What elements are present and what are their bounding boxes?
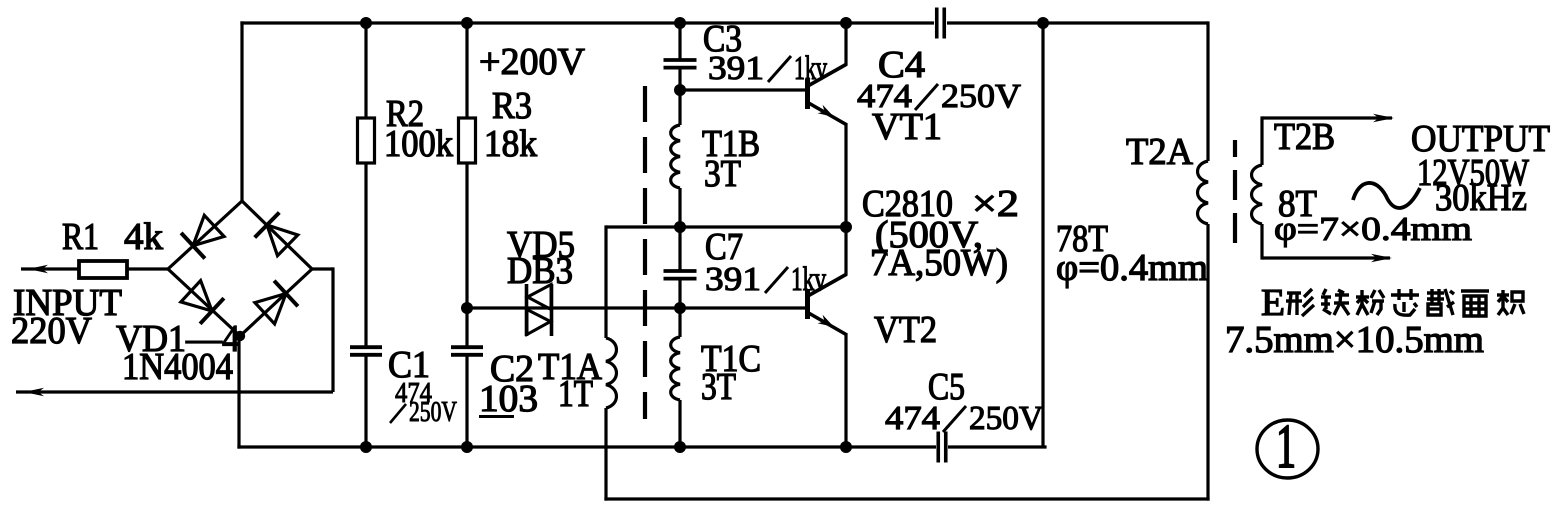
wire T2A down to feedback <box>1206 224 1209 501</box>
wire top rail to T2A <box>1206 21 1209 161</box>
arrow input top (left) <box>28 265 48 273</box>
node C2 bottom <box>461 441 473 453</box>
resistor R3 <box>459 118 476 163</box>
capacitor C5 <box>936 432 940 463</box>
svg-text:1T: 1T <box>558 373 593 415</box>
capacitor C3 <box>664 58 697 62</box>
transistor VT2 emitter arrow <box>818 315 834 327</box>
wire bottom rail left of C5 <box>237 445 936 448</box>
svg-text:4k: 4k <box>124 216 163 258</box>
transistor VT2 emitter diagonal <box>806 312 847 336</box>
svg-text:250V: 250V <box>409 397 457 428</box>
svg-text:7.5mm×10.5mm: 7.5mm×10.5mm <box>1225 319 1484 361</box>
resistor R2 <box>358 118 375 163</box>
wire VT1 base <box>680 88 806 91</box>
wire R1 to bridge left vertex <box>126 267 168 270</box>
capacitor C4 <box>935 8 939 39</box>
svg-text:474: 474 <box>885 400 940 437</box>
wire mid node to C7 <box>678 227 681 271</box>
transistor VT1 base bar <box>805 79 810 109</box>
bridge rectifier VD1-4 diamond <box>168 201 312 336</box>
wire bridge bottom to bottom rail <box>237 335 240 449</box>
wire VT1 collector up <box>844 23 847 65</box>
svg-text:φ=0.4mm: φ=0.4mm <box>1056 247 1208 289</box>
arrow output bottom <box>1371 254 1392 262</box>
svg-text:220V: 220V <box>11 310 93 352</box>
wire top rail to R3 <box>465 23 468 118</box>
svg-text:DB3: DB3 <box>507 250 573 292</box>
wire input bottom lead <box>16 390 333 393</box>
wire bridge right down <box>331 267 334 392</box>
svg-text:391: 391 <box>708 50 764 87</box>
transistor VT2 collector diagonal <box>806 274 847 297</box>
wire bridge right vertex stub <box>312 267 333 270</box>
wire T2B bottom lead <box>1260 224 1263 260</box>
transistor VT1 emitter arrow <box>818 105 834 117</box>
wire top rail to R2 <box>364 23 367 118</box>
wire T1A top <box>604 225 607 338</box>
wire feedback bottom <box>604 497 1209 500</box>
diode VD2 (top-right) <box>267 225 298 256</box>
wire top rail left of C4 <box>240 21 934 24</box>
label C2810 x2 <box>862 183 1019 225</box>
resistor R1 <box>79 261 127 278</box>
svg-text:E: E <box>1261 282 1285 324</box>
transistor VT1 emitter diagonal <box>806 102 847 126</box>
svg-text:+200V: +200V <box>479 41 586 83</box>
wire T1A to feedback corner <box>604 408 607 501</box>
wire to T1B top <box>678 90 681 125</box>
svg-text:30kHz: 30kHz <box>1435 177 1527 219</box>
wire R3 to VD5 node <box>465 163 468 308</box>
svg-text:1N4004: 1N4004 <box>122 346 233 388</box>
svg-text:1: 1 <box>1276 413 1296 481</box>
svg-text:474: 474 <box>857 78 912 115</box>
svg-text:250V: 250V <box>941 78 1021 115</box>
wire C3 to VT1 base node <box>678 67 681 90</box>
core T1 dashed line <box>643 86 647 419</box>
node C4 right rail top <box>1037 17 1049 29</box>
winding T2A <box>1198 161 1208 224</box>
svg-text:VT2: VT2 <box>874 309 937 351</box>
winding T1A <box>606 338 616 408</box>
capacitor C7 <box>664 269 697 273</box>
transistor VT2 base bar <box>805 289 810 319</box>
arrow output top <box>1373 114 1394 122</box>
wire T2B top lead <box>1260 116 1263 165</box>
wire top rail right of C4 <box>947 21 1208 24</box>
label C2 value 103 <box>479 378 538 420</box>
node T1C bottom <box>674 441 686 453</box>
wire T1C to bottom rail <box>678 400 681 447</box>
node bridge bottom junction <box>235 331 245 341</box>
wire VT2 collector up <box>844 227 847 275</box>
wire C7 to VT2 base node <box>678 278 681 308</box>
wire VD5 horizontal <box>467 306 806 309</box>
winding T1C <box>671 337 680 400</box>
svg-text:T2A: T2A <box>1126 131 1194 173</box>
label C5 value 474/250V <box>885 400 1043 437</box>
svg-text:1kv: 1kv <box>794 50 827 87</box>
figure number circle <box>1257 420 1318 478</box>
label C3 value 391/1kv <box>708 50 827 87</box>
arrow input bottom (left) <box>24 388 44 396</box>
wire VT2 emitter down <box>844 334 847 447</box>
wire mid horizontal (VT emitters node) <box>606 225 846 228</box>
wire bottom rail right of C5 <box>948 445 1047 448</box>
wire C2 to bottom rail <box>465 354 468 447</box>
node R3-C2-VD5 junction <box>461 302 473 314</box>
diac VD5 left bar <box>525 284 529 336</box>
diode VD4 (bottom-right) <box>255 294 286 324</box>
node R3 top <box>461 17 473 29</box>
svg-text:250V: 250V <box>969 400 1043 437</box>
svg-text:3T: 3T <box>704 153 741 195</box>
label E-core note CJK glyphs <box>1286 289 1314 316</box>
wire from top rail down to bridge top <box>240 21 243 201</box>
node R2 top <box>360 17 372 29</box>
svg-text:R1: R1 <box>62 216 99 258</box>
diac VD5 right bar <box>550 284 554 336</box>
node C1 bottom <box>360 441 372 453</box>
svg-text:103: 103 <box>479 378 538 420</box>
svg-text:18k: 18k <box>484 123 537 165</box>
svg-text:3T: 3T <box>701 366 736 408</box>
node C3 top <box>674 17 686 29</box>
node VT2 emitter bottom <box>840 441 852 453</box>
wire VT1 emitter down <box>844 124 847 227</box>
capacitor C1 <box>350 345 382 349</box>
transistor VT1 collector diagonal <box>806 64 847 87</box>
wire R2 to C1 <box>364 163 367 348</box>
winding T2B <box>1252 165 1262 224</box>
wire T1B to mid node <box>678 188 681 227</box>
diac VD5 upper triangle <box>528 285 552 310</box>
node mid-wire VT junction <box>840 221 852 233</box>
wire to T1C top <box>678 308 681 337</box>
wire top rail to C3 <box>678 23 681 60</box>
node VT2 base junction <box>674 302 686 314</box>
diac VD5 lower triangle <box>527 310 551 335</box>
wire input top lead <box>21 267 79 270</box>
label C1 value /250V <box>390 397 457 428</box>
node VT1 collector top <box>840 17 852 29</box>
wire VD5 node to C2 <box>465 308 468 348</box>
diode VD3 (bottom-left) <box>181 281 212 311</box>
node T1B bottom mid-wire <box>674 221 686 233</box>
wire T2B top out <box>1262 116 1392 119</box>
node VT1 base junction <box>674 84 686 96</box>
core T2 dashed line <box>1233 140 1237 243</box>
svg-text:7A,50W): 7A,50W) <box>870 242 1008 284</box>
svg-text:R3: R3 <box>492 85 532 127</box>
capacitor C2 <box>451 345 483 349</box>
diode VD1 (top-left) <box>193 215 224 245</box>
svg-text:T2B: T2B <box>1274 116 1335 158</box>
label C4 value 474/250V <box>857 78 1021 115</box>
winding T1B <box>671 125 680 188</box>
label C7 value 391/1kv <box>705 261 826 298</box>
wire right rail vertical <box>1041 23 1044 447</box>
svg-text:391: 391 <box>705 261 761 298</box>
svg-text:100k: 100k <box>384 123 453 165</box>
wire T2B bottom out <box>1262 256 1390 259</box>
output sine squiggle <box>1353 183 1420 208</box>
wire C1 to bottom rail <box>364 354 367 447</box>
